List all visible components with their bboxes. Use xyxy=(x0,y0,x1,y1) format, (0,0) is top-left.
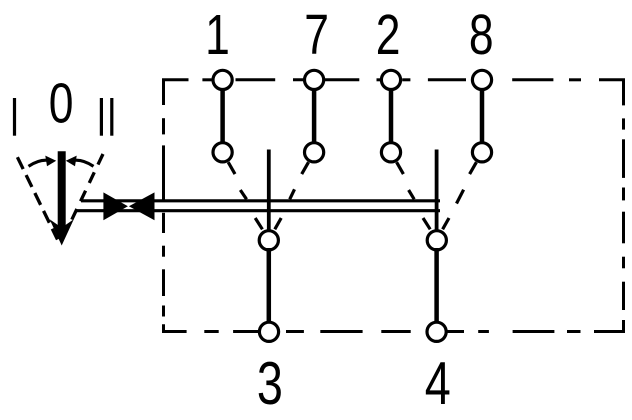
terminal 7 body line xyxy=(312,80,317,152)
terminal 1 blade stub xyxy=(228,162,235,174)
travel range dashed line left xyxy=(17,157,57,239)
actuator bar bottom line xyxy=(76,209,440,212)
svg-text:7: 7 xyxy=(304,3,329,67)
pole B fork left prong xyxy=(423,218,430,229)
pole B fork right prong xyxy=(443,218,449,229)
rotate arrow arc left xyxy=(29,160,51,166)
pole A to terminal 3 line xyxy=(267,248,272,325)
pole A movable contact line xyxy=(267,150,271,231)
enclosure border right (dash-dot) xyxy=(594,80,624,332)
pole A fork right prong xyxy=(275,218,281,229)
svg-text:1: 1 xyxy=(205,3,230,67)
position label II xyxy=(100,98,103,136)
terminal 7 lower contact circle xyxy=(305,143,324,162)
svg-text:2: 2 xyxy=(376,3,401,67)
terminal 2 lower contact circle xyxy=(381,143,400,162)
terminal 7 blade stub xyxy=(302,162,309,174)
terminal 4 circle xyxy=(427,322,446,341)
terminal 1 top contact circle xyxy=(213,70,232,89)
terminal 2 body line xyxy=(389,80,394,152)
rotate arrow arc right xyxy=(72,160,94,166)
terminal 2 blade stub xyxy=(397,162,404,174)
terminal 8 body line xyxy=(480,80,485,152)
lever shaft xyxy=(58,151,66,230)
terminal 8 lower contact circle xyxy=(472,143,491,162)
terminal 7 blade dash xyxy=(290,189,295,199)
enclosure border bottom (dash-dot) xyxy=(204,330,580,333)
terminal 1 lower contact circle xyxy=(213,143,232,162)
terminal 2 blade dash xyxy=(409,190,415,199)
pole A contact circle xyxy=(259,231,278,250)
position label I xyxy=(13,98,16,136)
travel range dashed line right xyxy=(70,154,104,225)
pole B to terminal 4 line xyxy=(434,248,439,325)
terminal 8 top contact circle xyxy=(472,70,491,89)
enclosure border top (dash-dot) xyxy=(164,80,582,105)
pole B movable contact line xyxy=(435,150,439,231)
lever arrowhead xyxy=(50,219,74,245)
svg-text:4: 4 xyxy=(425,350,451,417)
coupling bowtie right arrow xyxy=(129,192,155,220)
svg-text:0: 0 xyxy=(49,71,74,135)
terminal 2 top contact circle xyxy=(381,70,400,89)
terminal 1 blade dash xyxy=(240,190,246,199)
pole A fork left prong xyxy=(255,218,262,229)
terminal 8 blade stub xyxy=(470,162,477,174)
terminal 1 body line xyxy=(220,80,225,152)
coupling bowtie left arrow xyxy=(103,192,128,220)
svg-text:3: 3 xyxy=(257,350,283,417)
svg-text:8: 8 xyxy=(469,3,494,67)
pole B contact circle xyxy=(427,231,446,250)
enclosure border left (dash-dot) xyxy=(164,118,187,331)
actuator bar top line xyxy=(81,199,440,202)
terminal 8 blade dash xyxy=(457,190,464,204)
terminal 7 top contact circle xyxy=(305,70,324,89)
terminal 3 circle xyxy=(259,322,278,341)
